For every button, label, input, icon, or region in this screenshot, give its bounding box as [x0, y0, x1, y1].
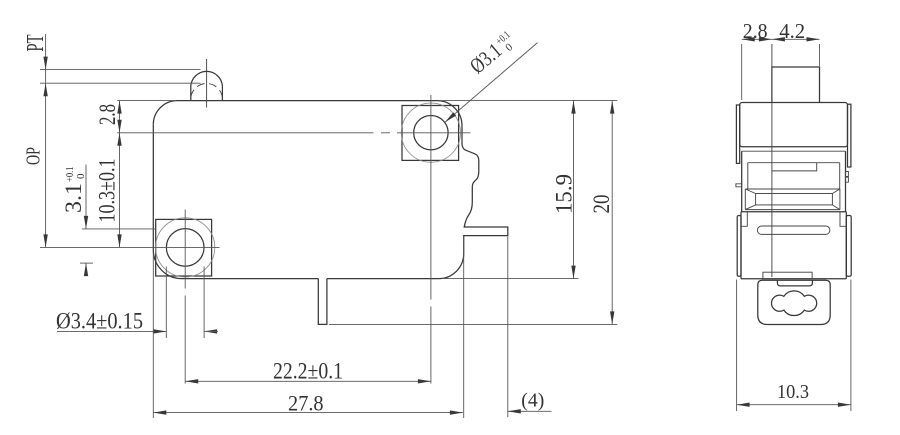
- svg-text:10.3±0.1: 10.3±0.1: [95, 159, 120, 223]
- side view neck inner right vertical: [839, 163, 841, 189]
- svg-text:27.8: 27.8: [288, 391, 324, 416]
- arrow PT top (down): [43, 57, 47, 70]
- side view step ledge: [772, 163, 817, 171]
- side view seam bevel diagonals: [745, 189, 840, 210]
- svg-text:3.1: 3.1: [61, 183, 86, 213]
- label PT: [23, 34, 49, 51]
- arrow 10.3 right: [838, 403, 851, 407]
- extension line side widest right (10.3): [850, 280, 852, 412]
- extension line body right / tab root: [463, 237, 465, 419]
- arrow OP bottom (down): [43, 234, 47, 247]
- side view top cap: [740, 103, 848, 147]
- side view plunger: [772, 67, 820, 103]
- arrow PT bottom / OP top (up): [43, 83, 47, 96]
- side view lower housing left notch: [741, 212, 747, 227]
- arrow 2.8 right / 4.2 left (back to back): [759, 37, 772, 41]
- label 15.9: [552, 174, 577, 214]
- centerline horizontal through bottom-left hole: [40, 246, 220, 248]
- label 10.3±0.1: [95, 159, 120, 223]
- arrow 2.8 bottom (down): [117, 120, 121, 133]
- arrow 27.8 left: [153, 410, 166, 414]
- leader line Ø3.1: [445, 43, 538, 123]
- arrow 4.2 right: [807, 37, 820, 41]
- svg-text:0: 0: [75, 173, 87, 179]
- bottom terminal pin: [318, 279, 327, 325]
- body left edge: [152, 125, 154, 250]
- arrow 2.8 left: [742, 37, 755, 41]
- side view lower right ear: [846, 216, 851, 277]
- arrow Ø3.1 leader: [445, 112, 456, 122]
- centerline horizontal through top-right hole: [117, 132, 470, 134]
- plunger button (front view): [191, 71, 223, 100]
- extension line hole top (3.1 dim): [82, 228, 155, 230]
- body bottom-left corner arc: [153, 250, 182, 279]
- svg-text:20: 20: [589, 195, 614, 214]
- dimension line 20: [611, 101, 613, 325]
- extension line plunger right (4.2): [819, 44, 821, 66]
- centerline vertical through top-right hole: [430, 95, 432, 384]
- side view lower left ear: [737, 216, 741, 277]
- svg-text:2.8: 2.8: [743, 19, 768, 43]
- side view cloud-shaped hole: [772, 291, 817, 316]
- side view lower housing right notch: [840, 212, 846, 227]
- side view right top ear: [848, 104, 851, 167]
- svg-text:0: 0: [503, 41, 515, 54]
- arrow Ø3.4 right (left-pointing): [204, 329, 217, 333]
- side view cap bottom second line: [742, 150, 846, 152]
- side view seam band outer: [745, 189, 840, 210]
- body top-left corner arc: [153, 101, 177, 125]
- side view terminal bracket: [758, 280, 830, 324]
- side view seam band inner: [756, 194, 833, 205]
- side view left top ear: [736, 105, 739, 163]
- label OP: [23, 147, 45, 165]
- side view bottom tab: [763, 272, 812, 279]
- svg-text:OP: OP: [23, 147, 45, 165]
- side view bracket top notch slot: [777, 280, 812, 286]
- arrow 10.3 top (up): [117, 133, 121, 146]
- extension line button operating position: [40, 82, 201, 84]
- side view neck left edge: [741, 151, 743, 212]
- svg-text:(4): (4): [521, 389, 544, 411]
- svg-text:15.9: 15.9: [552, 174, 577, 214]
- mounting hole boss circle (top-right): [401, 103, 460, 162]
- extension line side left edge (2.8): [741, 44, 743, 100]
- side view left edge tick: [736, 184, 742, 187]
- extension line side widest left (10.3): [736, 280, 738, 412]
- svg-text:10.3: 10.3: [777, 381, 809, 403]
- arrow 27.8 right: [450, 410, 463, 414]
- side view label recess bar: [757, 226, 830, 234]
- extension line tab tip (4): [507, 237, 509, 418]
- arrow 15.9 top (up): [571, 101, 575, 114]
- dimension line 10.3 (side bottom): [737, 404, 851, 406]
- extension line body top (left side): [117, 100, 176, 102]
- extension line button free position: [40, 69, 201, 71]
- body bottom-right corner arc: [439, 254, 464, 279]
- arrow 3.1 bottom (up): [84, 263, 88, 276]
- arrow 3.1 top (down): [84, 216, 88, 229]
- arrow 10.3 left: [737, 403, 750, 407]
- leader underline Ø3.4: [57, 330, 166, 332]
- mounting hole boss square (top-right): [402, 106, 459, 161]
- arrow 22.2 left: [185, 379, 198, 383]
- mounting hole boss square (bottom-left): [156, 219, 212, 276]
- side view vertical parting line: [771, 44, 773, 277]
- side view neck right edge: [845, 151, 847, 212]
- dimension line 3.1 lower stub: [85, 263, 87, 272]
- side terminal tab (right, common): [464, 227, 508, 254]
- side view lower housing left edge: [740, 212, 742, 279]
- arrow Ø3.4 left (right-pointing): [153, 329, 166, 333]
- arrow 2.8 top (up): [117, 101, 121, 114]
- svg-text:2.8: 2.8: [95, 104, 120, 125]
- arrow 20 bottom (down): [610, 311, 614, 324]
- plunger pressed position (dashed arc): [191, 84, 222, 98]
- arrow 15.9 bottom (down): [571, 266, 575, 279]
- side view neck inner left vertical: [747, 163, 749, 189]
- svg-text:22.2±0.1: 22.2±0.1: [273, 359, 343, 384]
- arrow 10.3 bottom (down): [117, 234, 121, 247]
- mounting hole boss circle (bottom-left): [156, 218, 215, 277]
- centerline vertical through bottom-left hole: [184, 210, 186, 384]
- extension line pin bottom (right side): [329, 323, 617, 325]
- tail line Ø3.4 right arrow: [204, 330, 218, 332]
- mounting hole circle Ø3.1 (top-right): [414, 116, 448, 150]
- dimension line 2.8/4.2 (side top): [742, 38, 820, 40]
- body bottom edge: [182, 278, 439, 280]
- extension line hole right edge: [203, 267, 205, 339]
- side view lower housing right edge: [845, 212, 847, 279]
- extension line hole bottom (3.1 dim): [80, 262, 93, 264]
- plunger centerline: [206, 59, 208, 108]
- mounting hole circle Ø3.4 (bottom-left): [166, 229, 204, 267]
- dimension line 27.8: [153, 412, 463, 414]
- dimension line PT and OP (shared vertical): [45, 34, 47, 247]
- arrow 22.2 right: [418, 379, 431, 383]
- svg-text:4.2: 4.2: [779, 19, 805, 43]
- dimension line 15.9: [573, 101, 575, 279]
- side view neck inner top line: [748, 162, 840, 164]
- side view lower housing bottom edge: [741, 278, 846, 280]
- side view right edge latch squares: [845, 172, 848, 183]
- extension line body top (right side, for 15.9/20): [440, 100, 617, 102]
- dimension line 2.8 / 10.3 (shared vertical): [119, 101, 121, 248]
- extension line body left (27.8): [152, 253, 154, 418]
- svg-text:Ø3.4±0.15: Ø3.4±0.15: [56, 308, 143, 333]
- svg-text:PT: PT: [23, 34, 49, 51]
- dimension line (4): [508, 410, 552, 412]
- dimension line 22.2: [185, 380, 431, 382]
- extension line body bottom (right side): [442, 278, 579, 280]
- label 2.8 (left): [95, 104, 120, 125]
- body outline of switch (front view): [177, 101, 479, 227]
- arrow 4.2 left-pointing: [772, 37, 785, 41]
- label Ø3.1 +0.1/0 (rotated along leader): [465, 27, 520, 79]
- dimension line 3.1 upper: [85, 165, 87, 229]
- arrow (4) left-pointing: [508, 409, 521, 413]
- label 3.1 +0.1/0: [61, 167, 87, 214]
- arrow 20 top (up): [610, 101, 614, 114]
- label 20: [589, 195, 614, 214]
- extension line hole left edge: [165, 267, 167, 339]
- side view lower housing top line: [741, 211, 846, 213]
